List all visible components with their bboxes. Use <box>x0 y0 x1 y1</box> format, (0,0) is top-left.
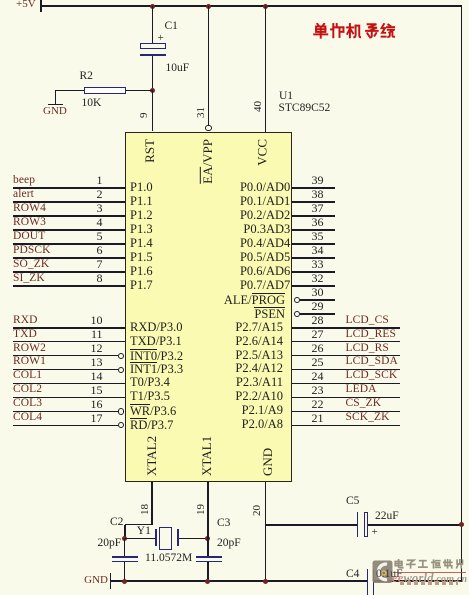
pin number 39 <box>305 174 330 186</box>
designator C4 <box>346 569 359 580</box>
inversion circle pin 29 <box>294 311 300 317</box>
pin name P1.3 <box>130 223 153 236</box>
net label PDSCK <box>13 245 51 256</box>
wire pin 33 P0.6/AD6 <box>292 271 335 273</box>
wire pin20 to C5 <box>266 524 358 526</box>
junction +5V/C1 <box>150 4 155 9</box>
watermark red underline <box>393 572 466 574</box>
capacitor C4 right plate <box>373 569 375 595</box>
pin name P1.7 <box>130 279 153 292</box>
wire C3 to GND rail <box>207 562 209 581</box>
pin name P1.1 <box>130 195 153 208</box>
capacitor C2 bottom plate <box>112 561 138 563</box>
inversion circle pin 17 <box>118 422 124 428</box>
wire pin 38 P0.1/AD1 <box>292 201 335 203</box>
crystal Y1 left plate <box>155 529 157 547</box>
wire C5 to +5V rail <box>368 524 461 526</box>
pin number 20 <box>252 505 263 516</box>
power label GND top-left <box>43 106 67 117</box>
watermark Chinese text eeworld <box>0 0 1 1</box>
pin name P1.4 <box>130 237 153 250</box>
power port GND bar top-left <box>48 104 63 106</box>
pin name ROW1/P3.3 <box>130 362 183 376</box>
pin name P1.2 <box>130 209 153 222</box>
pin name P1.0 <box>130 181 153 194</box>
net label DOUT <box>13 231 45 242</box>
net label LCD_RES <box>346 329 397 340</box>
wire pin 30 <box>300 299 335 301</box>
designator C2 <box>110 517 123 528</box>
pin number 5 <box>97 230 103 242</box>
net label SO_ZK <box>13 259 49 270</box>
pin number 16 <box>91 398 103 410</box>
wire junction to Y1 left plate <box>125 538 156 540</box>
net label COL1 <box>13 370 42 381</box>
net label ROW2 <box>13 343 46 354</box>
pin number 13 <box>91 356 103 368</box>
net label ROW4 <box>13 203 46 214</box>
pin number 37 <box>305 202 330 214</box>
watermark eeworld logo <box>372 560 393 584</box>
pin number 28 <box>305 314 330 326</box>
pin name P2.2/A10 <box>235 390 283 403</box>
inversion circle pin 30 <box>294 297 300 303</box>
junction pin20/GND rail <box>263 579 268 584</box>
wire pin 39 P0.0/AD0 <box>292 187 335 189</box>
pin number 4 <box>97 216 103 228</box>
pin name GND <box>261 447 274 475</box>
pin number 21 <box>305 412 330 424</box>
capacitor C1 plus plate <box>140 43 166 49</box>
wire GND drop <box>55 90 57 104</box>
resistor R2 body <box>84 87 126 94</box>
junction C2/Y1/pin18 <box>122 536 127 541</box>
pin name XTAL1 <box>200 435 213 475</box>
pin name RST <box>143 139 156 163</box>
net label TXD <box>13 329 37 340</box>
net label LCD_CS <box>346 315 389 326</box>
wire GND rail right section <box>374 580 462 582</box>
pin name COL1/P3.4 <box>130 376 170 389</box>
wire pin 13 net ROW1 <box>13 369 118 371</box>
wire pin 7 net SO_ZK <box>13 271 125 273</box>
wire GND rail left section <box>111 580 368 582</box>
designator Y1 <box>137 526 151 537</box>
pin name ROW2/P3.2 <box>130 349 183 363</box>
wire pin 12 net ROW2 <box>13 355 118 357</box>
designator C1 <box>165 21 178 32</box>
value 20pF C2 <box>98 538 122 549</box>
capacitor C5 polarity + <box>372 527 378 538</box>
pin number 40 <box>253 101 264 112</box>
pin number 34 <box>305 244 330 256</box>
crystal Y1 right plate <box>177 529 179 547</box>
wire C2 to GND rail <box>124 562 126 581</box>
pin number 33 <box>305 258 330 270</box>
pin name COL2/P3.5 <box>130 390 170 403</box>
power port +5V bar <box>40 0 42 12</box>
pin name P2.7/A15 <box>235 321 283 334</box>
net label beep <box>13 175 35 186</box>
wire pin 11 net TXD <box>13 341 125 343</box>
net label LCD_SCK <box>346 370 398 381</box>
wire pin 18 down <box>151 482 153 525</box>
wire pin 6 net PDSCK <box>13 257 125 259</box>
pin number 9 <box>139 112 150 118</box>
wire pin 26 net LCD_RS <box>292 355 400 357</box>
pin name P2.3/A11 <box>236 376 283 389</box>
wire C1 to R2 junction <box>152 56 154 91</box>
wire R2 to junction <box>126 90 152 92</box>
net label SCK_ZK <box>346 412 390 423</box>
pin number 18 <box>140 504 151 515</box>
pin number 22 <box>305 398 330 410</box>
pin number 35 <box>305 230 330 242</box>
pin number 30 <box>305 286 330 298</box>
wire pin 20 down <box>265 482 267 581</box>
watermark slogan dashes <box>400 581 458 584</box>
capacitor C1 polarity + <box>158 33 164 44</box>
wire pin 8 net SI_ZK <box>13 285 125 287</box>
inversion circle pin 12 <box>118 353 124 359</box>
designator C3 <box>217 518 230 529</box>
value 20pF C3 <box>217 538 241 549</box>
wire pin 36 P0.3/AD3 <box>292 229 335 231</box>
wire +5V right rail <box>461 6 463 581</box>
pin number 32 <box>305 272 330 284</box>
watermark eeworld.com.cn <box>392 571 467 586</box>
pin number 19 <box>196 504 207 515</box>
wire pin 40 VCC <box>265 6 267 132</box>
net label COL4 <box>13 412 42 423</box>
wire pin 17 net COL4 <box>13 425 118 427</box>
pin name XTAL2 <box>145 435 158 475</box>
wire pin 29 <box>300 313 335 315</box>
wire pin 16 net COL3 <box>13 411 118 413</box>
wire pin 22 net CS_ZK <box>292 411 400 413</box>
pin name VCC <box>256 139 269 166</box>
wire pin 27 net LCD_RES <box>292 341 400 343</box>
pin number 1 <box>97 174 103 186</box>
capacitor C3 top plate <box>196 556 222 558</box>
pin number 2 <box>97 188 103 200</box>
pin name P0.4/AD4 <box>240 237 290 250</box>
net label alert <box>13 189 34 200</box>
net label LCD_SDA <box>346 356 398 367</box>
pin name P2.0/A8 <box>242 418 283 431</box>
wire pin 1 net beep <box>13 187 125 189</box>
wire pin 3 net ROW4 <box>13 215 125 217</box>
power port GND bar bottom <box>110 573 112 589</box>
capacitor C1 bottom plate <box>140 54 166 56</box>
wire pin 18 jog down <box>124 525 126 539</box>
pin name P0.5/AD5 <box>240 251 290 264</box>
net label COL2 <box>13 384 42 395</box>
wire pin 2 net alert <box>13 201 125 203</box>
wire pin 15 net COL2 <box>13 397 125 399</box>
inversion circle pin 16 <box>118 408 124 414</box>
wire pin 35 P0.4/AD4 <box>292 243 335 245</box>
junction Y1/pin19/C3 <box>205 536 210 541</box>
wire pin 21 net SCK_ZK <box>292 425 400 427</box>
value 11.0572M <box>145 553 192 564</box>
pin number 27 <box>305 328 330 340</box>
junction C2/GND rail <box>122 579 127 584</box>
inversion circle pin 31 <box>205 125 211 131</box>
wire pin 37 P0.2/AD2 <box>292 215 335 217</box>
wire RST pin 9 <box>152 90 154 131</box>
designator R2 <box>80 71 93 82</box>
wire pin 14 net COL1 <box>13 383 125 385</box>
capacitor C3 bottom plate <box>196 561 222 563</box>
pin number 7 <box>97 258 103 270</box>
title MCU system (Chinese) <box>0 0 1 1</box>
designator U1 <box>279 91 293 102</box>
capacitor C2 top plate <box>112 556 138 558</box>
pin name P0.0/AD0 <box>240 181 290 194</box>
wire pin 31 EA/VPP <box>208 6 210 125</box>
pin number 3 <box>97 202 103 214</box>
wire pin 24 net LCD_SCK <box>292 383 400 385</box>
wire pin 18 jog left <box>125 524 152 526</box>
wire pin 34 P0.5/AD5 <box>292 257 335 259</box>
pin number 12 <box>91 342 103 354</box>
net label LCD_RS <box>346 343 389 354</box>
net label ROW3 <box>13 217 46 228</box>
pin name P0.7/AD7 <box>240 279 290 292</box>
part name STC89C52 <box>279 103 331 114</box>
junction +5V/pin40 <box>263 4 268 9</box>
crystal Y1 body <box>159 527 172 550</box>
wire +5V top rail <box>41 5 462 7</box>
junction R2/C1/RST <box>150 88 155 93</box>
pin number 15 <box>91 384 103 396</box>
designator C5 <box>346 496 359 507</box>
pin name COL3/P3.6 <box>130 404 176 418</box>
pin name P2.4/A12 <box>235 362 283 375</box>
pin number 23 <box>305 384 330 396</box>
value 10uF <box>166 63 190 74</box>
wire pin 28 net LCD_CS <box>292 327 400 329</box>
power label +5V <box>16 0 36 10</box>
pin name P1.5 <box>130 251 153 264</box>
pin number 31 <box>196 107 207 118</box>
value 10K <box>82 98 102 109</box>
pin name P2.6/A14 <box>235 335 283 348</box>
pin number 17 <box>91 412 103 424</box>
IC U1 STC89C52 body <box>125 132 292 483</box>
wire GND to R2 <box>56 90 85 92</box>
wire Y1 to pin19 <box>179 538 209 540</box>
pin number 29 <box>305 300 330 312</box>
pin number 10 <box>91 314 103 326</box>
pin number 11 <box>91 328 103 340</box>
pin name P0.6/AD6 <box>240 265 290 278</box>
pin name P0.1/AD1 <box>240 195 290 208</box>
net label LEDA <box>346 384 377 395</box>
wire pin 5 net DOUT <box>13 243 125 245</box>
net label RXD <box>13 315 38 326</box>
inversion circle pin 13 <box>118 367 124 373</box>
value 0.1uF overlay <box>376 569 403 580</box>
power label GND bottom <box>84 575 108 586</box>
net label COL3 <box>13 398 42 409</box>
pin name P0.2/AD2 <box>240 209 290 222</box>
wire pin 19 down <box>207 482 209 557</box>
pin name P0.3AD3 <box>243 223 290 236</box>
pin name P1.6 <box>130 265 153 278</box>
capacitor C5 left plate <box>357 512 359 537</box>
capacitor C4 left plate <box>367 569 369 595</box>
wire pin 23 net LEDA <box>292 397 400 399</box>
pin name ALE/PROG <box>224 293 285 307</box>
pin name RXD/P3.0 <box>130 321 182 334</box>
pin name P2.5/A13 <box>235 349 283 362</box>
net label ROW1 <box>13 356 46 367</box>
wire C1 to rail <box>152 6 154 44</box>
pin name PSEN <box>254 307 285 321</box>
pin name EA/VPP <box>200 139 214 184</box>
junction +5V/pin31 <box>206 4 211 9</box>
pin number 36 <box>305 216 330 228</box>
pin number 38 <box>305 188 330 200</box>
net label SI_ZK <box>13 273 45 284</box>
pin number 24 <box>305 370 330 382</box>
pin number 6 <box>97 244 103 256</box>
pin number 8 <box>97 272 103 284</box>
pin number 26 <box>305 342 330 354</box>
pin number 25 <box>305 356 330 368</box>
capacitor C5 plus plate <box>364 512 369 537</box>
pin name TXD/P3.1 <box>130 335 182 348</box>
wire pin 32 P0.7/AD7 <box>292 285 335 287</box>
wire pin 25 net LCD_SDA <box>292 369 400 371</box>
wire pin 10 net RXD <box>13 327 125 329</box>
net label CS_ZK <box>346 398 382 409</box>
wire junction to C2 <box>124 539 126 557</box>
value 22uF <box>375 511 399 522</box>
pin name COL4/P3.7 <box>130 418 173 432</box>
junction C3/GND rail <box>205 579 210 584</box>
wire pin 4 net ROW3 <box>13 229 125 231</box>
pin name P2.1/A9 <box>242 404 283 417</box>
junction C5/+5V rail <box>459 522 464 527</box>
pin number 14 <box>91 370 103 382</box>
